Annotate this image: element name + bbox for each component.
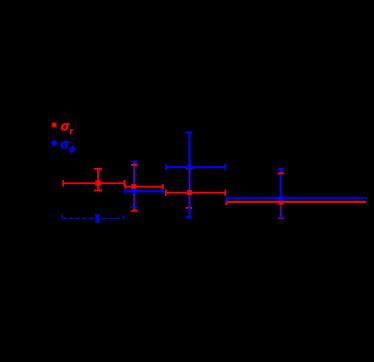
red point R4 yerr bar: [280, 173, 282, 218]
blue marker B3: [187, 164, 193, 170]
svg-text:σ: σ: [61, 120, 70, 134]
red point R2 yerr bar: [133, 165, 135, 211]
purple overlap of R3/B3 vertical bars: [189, 169, 191, 207]
purple overlap of R2/B2 vertical bars: [133, 166, 135, 207]
svg-text:ϕ: ϕ: [69, 144, 76, 154]
red point R3 yerr bar: [189, 169, 191, 208]
legend red marker: [52, 123, 57, 128]
red marker R1: [95, 180, 101, 186]
blue point B1 yerr bar: [96, 215, 98, 222]
blue point B2 xerr bar: [125, 190, 163, 192]
red point R2 xerr bar: [125, 186, 163, 188]
red point R3 xerr bar: [166, 192, 226, 194]
blue point B4 yerr bar: [280, 169, 282, 218]
red point R1 yerr bar: [97, 169, 99, 191]
blue marker B4: [278, 195, 284, 201]
red cap R2 top (over blue bar): [131, 164, 137, 166]
blue point B2 yerr bar: [133, 162, 135, 208]
blue marker B2: [131, 188, 137, 194]
red marker R4: [278, 200, 283, 205]
red point R4 xerr bar: [226, 201, 366, 203]
blue point B3 xerr bar: [166, 166, 225, 168]
red marker R3: [187, 190, 192, 195]
red cap R4 top (over blue bar): [278, 172, 285, 174]
red point R1 xerr bar: [63, 182, 124, 184]
blue point B3 yerr bar: [188, 133, 190, 218]
blue point B1 dashed xerr bar: [62, 217, 124, 219]
purple overlap of R4/B4 vertical bars below marker: [280, 205, 282, 217]
blue point B4 xerr bar: [227, 197, 367, 199]
legend blue marker: [51, 140, 57, 146]
red cap R3 top (over blue bar, under blue marker): [187, 168, 193, 170]
red marker R2: [131, 184, 136, 189]
blue marker B1: [95, 216, 100, 221]
